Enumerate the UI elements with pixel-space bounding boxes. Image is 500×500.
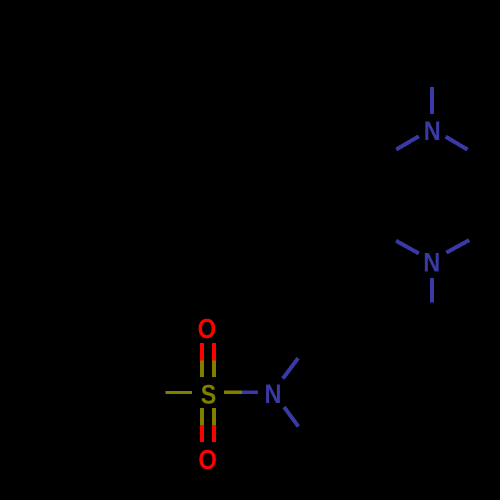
- bond S-C10 (S half, left olive stub): [166, 391, 193, 394]
- bond S-N3 (N half, blue): [242, 391, 258, 394]
- svg-text:N: N: [424, 116, 441, 146]
- svg-text:O: O: [198, 444, 217, 475]
- svg-text:O: O: [198, 313, 217, 344]
- double bond S=O lower, left line (red O half): [200, 425, 204, 442]
- bond N2-C5 (N half, upper-right stub): [446, 240, 469, 253]
- svg-text:N: N: [265, 379, 282, 409]
- bond N3-C9 (N half, lower-right stub): [284, 407, 298, 426]
- svg-text:S: S: [201, 379, 217, 409]
- svg-text:N: N: [423, 247, 440, 277]
- bond N2-C3 (N half, upper-left stub): [396, 241, 419, 254]
- bond N1-C2 (N half, lower-left stub): [396, 136, 419, 149]
- bond S-N3 (S half, olive): [224, 391, 242, 394]
- double bond S=O upper, left line (red O half): [200, 343, 204, 360]
- double bond S=O lower, left line (olive S half): [200, 408, 204, 425]
- bond N1-CH3 (N half, methyl stub): [430, 87, 434, 114]
- bond N2-C7 (N half, downward stub): [430, 278, 434, 303]
- double bond S=O lower, right line (red O half): [212, 425, 216, 442]
- bond N3-C8 (N half, upper-right stub): [283, 358, 298, 378]
- double bond S=O upper, left line (olive S half): [200, 360, 204, 377]
- double bond S=O upper, right line (olive S half): [212, 360, 216, 377]
- double bond S=O upper, right line (red O half): [212, 343, 216, 360]
- double bond S=O lower, right line (olive S half): [212, 408, 216, 425]
- bond N1-C6 (N half, lower-right stub): [446, 137, 468, 150]
